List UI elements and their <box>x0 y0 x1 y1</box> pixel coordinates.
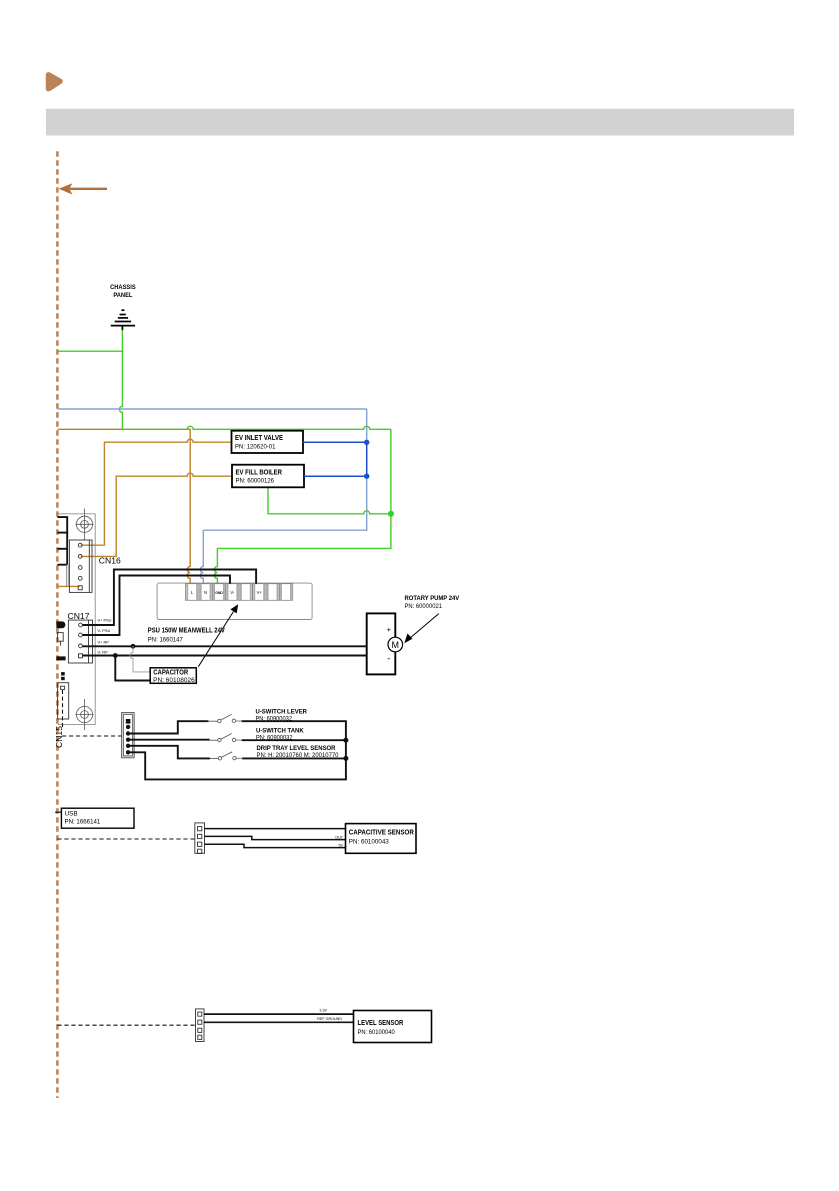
node blue EV fill <box>364 474 369 479</box>
wire green chassis branch to boundary <box>58 350 123 352</box>
wire green GND top run <box>122 426 391 429</box>
wire blue link between valves <box>366 442 368 476</box>
PSU terminal cells <box>186 584 293 601</box>
wire orange CN16 pin5 to boundary <box>58 585 80 587</box>
dashed link to level sensor connector <box>57 1024 195 1026</box>
PSU block outline <box>157 583 312 619</box>
play icon <box>47 73 62 90</box>
wire switch lever input <box>130 721 209 733</box>
svg-text:5V: 5V <box>338 843 343 847</box>
wire orange L line <box>58 429 191 583</box>
svg-text:PN: H: 20010760 M: 20010770: PN: H: 20010760 M: 20010770 <box>257 752 339 759</box>
level sensor box <box>354 1011 432 1043</box>
node V- RP junction <box>113 653 118 658</box>
arrow to PSU <box>198 604 238 667</box>
svg-text:CN17: CN17 <box>68 611 90 621</box>
wire capacitive pin3 <box>205 844 346 847</box>
component small switch body <box>58 633 64 646</box>
wire blue N line vertical right <box>203 409 366 530</box>
svg-text:ROTARY PUMP 24V: ROTARY PUMP 24V <box>405 595 460 602</box>
svg-text:V-: V- <box>230 590 235 595</box>
PCB outline <box>57 514 95 725</box>
svg-text:OUT: OUT <box>335 835 344 839</box>
svg-text:PN: 60000021: PN: 60000021 <box>405 603 443 610</box>
svg-text:PN: 120620-01: PN: 120620-01 <box>235 444 276 451</box>
switch lever <box>208 714 236 722</box>
svg-text:PANEL: PANEL <box>113 292 132 299</box>
wire black V- PSU <box>83 576 231 636</box>
svg-text:CHASSIS: CHASSIS <box>110 284 136 291</box>
capacitive sensor connector <box>195 823 205 853</box>
rotary pump box <box>367 613 396 674</box>
USB box <box>55 811 61 813</box>
wire green GND return <box>214 514 391 584</box>
switch connector pins <box>126 719 131 724</box>
connector CN15 key dashed <box>62 690 64 729</box>
wire capacitive pin2 <box>205 836 346 839</box>
screw hole bottom <box>76 699 94 730</box>
node switch junction 2 <box>343 756 348 761</box>
svg-text:PN: 60900032: PN: 60900032 <box>256 734 293 741</box>
boundary dashed line <box>56 151 59 1098</box>
wire blue EV fill boiler <box>304 475 367 477</box>
svg-text:EV FILL BOILER: EV FILL BOILER <box>236 469 283 476</box>
svg-text:-: - <box>387 654 390 664</box>
EV INLET VALVE box <box>232 431 304 453</box>
wire green GND right drop <box>390 429 392 514</box>
svg-text:3.3V: 3.3V <box>319 1009 327 1013</box>
wire switch lever output <box>236 720 242 722</box>
svg-text:CN16: CN16 <box>99 556 121 566</box>
node green junction <box>388 511 394 517</box>
wire level sensor pin2 <box>204 1021 354 1023</box>
svg-text:M: M <box>392 640 400 650</box>
wire drip tray input <box>130 746 210 759</box>
svg-text:GND: GND <box>215 591 223 595</box>
wire switch tank input <box>130 739 210 741</box>
wire level sensor pin1 <box>204 1013 354 1015</box>
wire green from EV fill boiler <box>268 487 391 514</box>
wire switch common return <box>130 740 346 779</box>
svg-text:PN: 60900032: PN: 60900032 <box>256 715 293 722</box>
svg-text:U-SWITCH TANK: U-SWITCH TANK <box>256 727 304 734</box>
wire green chassis trunk <box>119 330 122 429</box>
svg-text:N: N <box>204 590 207 595</box>
wire capacitor black <box>115 656 150 681</box>
wire blue EV inlet valve <box>303 441 367 443</box>
svg-text:REF GROUND: REF GROUND <box>317 1017 342 1021</box>
svg-text:PN: 60108026: PN: 60108026 <box>153 677 195 684</box>
node V+ RP junction <box>131 644 136 649</box>
svg-text:U-SWITCH LEVER: U-SWITCH LEVER <box>256 708 308 715</box>
svg-text:PN: 1666141: PN: 1666141 <box>65 819 101 826</box>
svg-text:PN: 60100040: PN: 60100040 <box>358 1029 396 1036</box>
capacitor box <box>150 668 196 684</box>
wire blue N line horizontal <box>58 408 367 410</box>
svg-text:EV INLET VALVE: EV INLET VALVE <box>235 435 283 442</box>
svg-text:CAPACITIVE SENSOR: CAPACITIVE SENSOR <box>349 829 414 836</box>
wire blue N drop to PSU <box>200 530 203 584</box>
wire capacitive pin1 <box>205 828 346 830</box>
wire black V- RP <box>83 655 367 657</box>
wire orange CN16 pin2 to EV fill boiler <box>81 473 232 556</box>
header bar <box>46 109 794 136</box>
panel arrow <box>59 183 107 194</box>
svg-text:DRIP TRAY LEVEL SENSOR: DRIP TRAY LEVEL SENSOR <box>257 745 336 752</box>
connector CN15 body <box>58 683 69 719</box>
svg-text:LEVEL SENSOR: LEVEL SENSOR <box>358 1020 404 1027</box>
connector CN17 <box>68 620 92 663</box>
svg-text:V+ PSU: V+ PSU <box>98 618 112 623</box>
ground (chassis) <box>111 310 135 330</box>
component D1 <box>56 621 65 628</box>
node blue EV inlet <box>364 440 369 445</box>
switch tank <box>210 734 236 742</box>
switch connector body <box>122 713 135 758</box>
wire switch tank output <box>236 739 242 741</box>
level sensor connector <box>196 1009 205 1042</box>
component pad 2 <box>61 672 65 675</box>
connector CN16 <box>69 540 92 592</box>
PCB edge tabs <box>57 517 67 565</box>
svg-text:V+: V+ <box>257 590 263 595</box>
EV FILL BOILER box <box>232 465 304 488</box>
wire black V+ PSU <box>83 570 257 626</box>
node switch junction 1 <box>343 738 348 743</box>
wire drip tray output <box>236 757 242 759</box>
component pad 3 <box>61 677 65 680</box>
component pad 1 <box>56 656 65 660</box>
motor M <box>388 637 403 652</box>
svg-text:CN15: CN15 <box>54 726 64 748</box>
screw hole top <box>76 509 94 541</box>
arrow to pump <box>404 614 439 644</box>
switch drip tray <box>210 752 236 760</box>
dashed link to CN15 <box>62 735 122 737</box>
svg-text:USB: USB <box>65 811 78 818</box>
svg-text:CAPACITOR: CAPACITOR <box>153 670 188 677</box>
wire black V+ RP <box>83 645 367 647</box>
dashed link to capacitive sensor connector <box>57 838 194 840</box>
svg-text:PN: 60100043: PN: 60100043 <box>349 838 389 845</box>
svg-text:PSU 150W MEANWELL 24V: PSU 150W MEANWELL 24V <box>148 627 225 634</box>
capacitive sensor box <box>346 824 417 854</box>
svg-text:V- PSU: V- PSU <box>98 628 111 633</box>
svg-text:PN: 60000126: PN: 60000126 <box>236 478 275 485</box>
wire orange CN16 pin1 to EV inlet valve <box>81 439 232 545</box>
svg-text:V+ RP: V+ RP <box>98 640 110 645</box>
wire capacitor sense (thin) <box>130 646 150 672</box>
svg-text:V- RP: V- RP <box>98 650 109 655</box>
svg-text:PN: 1660147: PN: 1660147 <box>148 636 183 643</box>
svg-text:+: + <box>387 625 392 634</box>
